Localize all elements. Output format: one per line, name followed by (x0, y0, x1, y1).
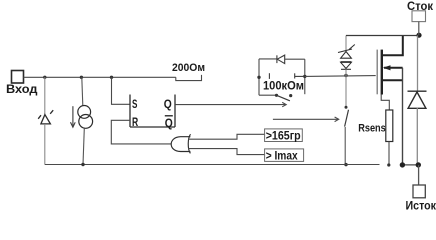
resistor Rsens (box) (386, 110, 393, 142)
svg-text:R: R (132, 115, 138, 129)
node on rail at suppressor branch (43, 76, 46, 79)
wire top branch to diode (259, 58, 277, 60)
OR gate D1 (facing left) (171, 134, 190, 153)
wire top input rail (24, 76, 176, 78)
bottom rail left segment (45, 164, 380, 166)
current source I1 (two circles with down arrow) (78, 106, 93, 129)
node diode leg at rail (416, 162, 421, 167)
wire drain node down to body diode (417, 35, 419, 91)
node Rsens at rail (387, 163, 390, 166)
svg-text:Q: Q (165, 116, 173, 130)
wire channel bottom step to Rsens (381, 95, 389, 111)
node at gate line right leg (303, 75, 306, 78)
wire gate line to MOSFET (305, 75, 376, 78)
MOSFET Q1 channel bar (381, 50, 383, 95)
wire R input from OR gate (111, 120, 171, 144)
wire arrow from thermal comparator to switch SW2 (273, 117, 339, 122)
svg-text:> Imax: > Imax (266, 149, 298, 163)
wire OR top input (188, 134, 264, 139)
wire Q output with arrow to switch SW1 (175, 102, 286, 106)
wire body/source down to bottom rail (402, 68, 404, 165)
wire suppressor branch upper (44, 77, 46, 114)
svg-text:100кОм: 100кОм (263, 80, 304, 93)
node on rail at S branch (110, 76, 113, 79)
terminal Вход (6, 71, 38, 97)
node at TVS / switch branch (344, 74, 347, 77)
MOSFET Q1 body arrow (383, 65, 403, 70)
wire body diode to bottom rail (416, 108, 418, 165)
wire suppressor branch lower (44, 124, 46, 165)
wire switch SW2 lower (344, 127, 346, 165)
MOSFET Q1 source lead (382, 79, 403, 81)
node drain at terminal (416, 33, 421, 38)
diode VD2 (pointing left) (277, 55, 285, 64)
node at gate divider left (257, 76, 260, 79)
wire current source branch upper (82, 77, 83, 105)
node switch to bottom rail (344, 163, 347, 166)
wire TVS top to drain rail (345, 36, 347, 51)
resistor R1 200Ом (open box step) (176, 75, 202, 81)
node current source at rail (81, 163, 84, 166)
wire left leg of clamp network (258, 59, 260, 95)
body diode VD4 (pointing up) (408, 91, 427, 108)
wire current source branch lower (83, 128, 84, 164)
wire OR bottom input (188, 149, 264, 155)
svg-text:200Ом: 200Ом (172, 62, 205, 74)
wire switch SW2 upper (345, 76, 347, 107)
terminal Исток (406, 185, 436, 213)
resistor R2 100кОм (tick marks) (269, 73, 304, 79)
svg-text:Rsens: Rsens (358, 123, 386, 135)
MOSFET Q1 drain lead (382, 35, 403, 55)
suppressor VD1 (triangle with slashes) (38, 110, 53, 124)
switch SW1 (Q controlled) (259, 94, 292, 101)
SR latch U1 (box, no top edge) (130, 95, 175, 128)
pin label Q-bar (165, 116, 173, 130)
wire drain terminal to node (418, 22, 420, 36)
wire drain top rail (346, 35, 419, 37)
wire diode to right leg (285, 58, 305, 60)
wire S input from rail (112, 77, 131, 104)
bottom rail right segment (402, 164, 418, 166)
wire right leg of clamp network (304, 59, 306, 94)
svg-text:Сток: Сток (407, 0, 434, 13)
svg-text:Исток: Исток (406, 199, 436, 211)
wire TVS bottom to gate node (345, 69, 347, 75)
svg-text:>165гр: >165гр (266, 129, 301, 143)
wire to source terminal (418, 165, 420, 185)
wire Rsens to bottom rail (388, 142, 390, 165)
svg-text:Q: Q (164, 97, 172, 111)
comparator box >Imax (265, 149, 304, 163)
MOSFET Q1 gate bar (376, 50, 378, 95)
switch SW2 (thermal/current trip) (345, 106, 349, 127)
svg-text:S: S (132, 97, 137, 111)
node on rail at current source branch (80, 76, 83, 79)
terminal Сток (407, 0, 434, 22)
svg-text:Вход: Вход (6, 83, 38, 96)
node MOSFET source at rail (400, 162, 405, 167)
TVS VD3 (bidirectional zener) (338, 45, 355, 70)
comparator box >165гр (265, 129, 303, 143)
